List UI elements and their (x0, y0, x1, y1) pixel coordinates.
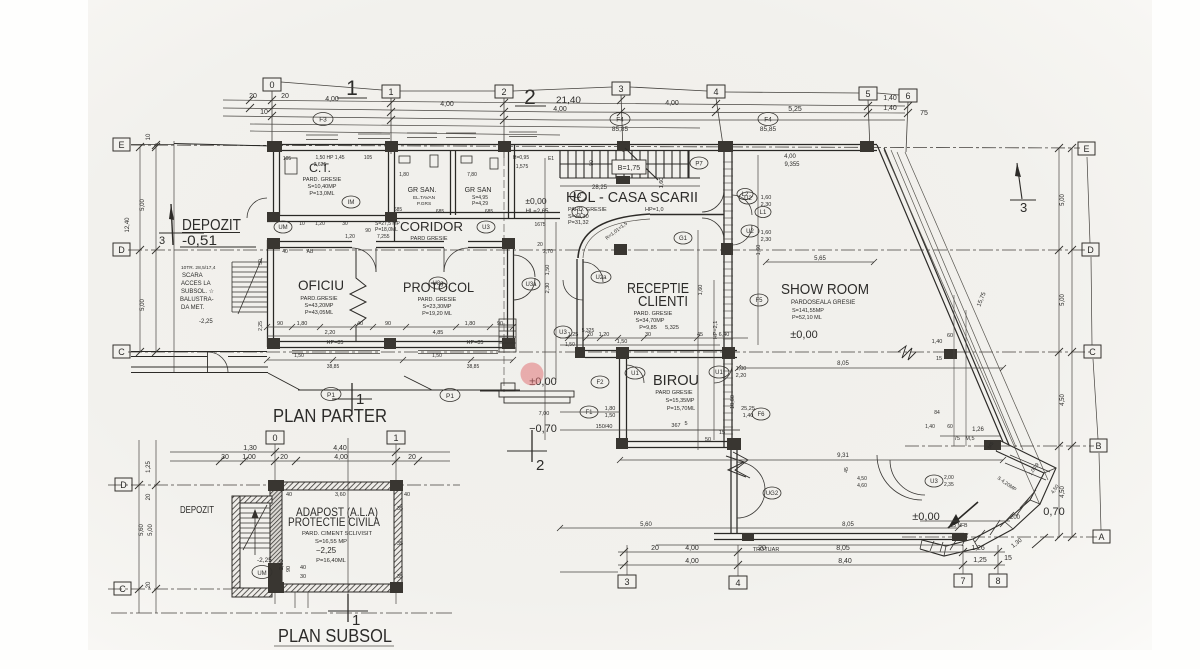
svg-text:3: 3 (618, 84, 623, 94)
svg-text:18,60: 18,60 (730, 395, 736, 409)
svg-text:21,40: 21,40 (556, 95, 581, 105)
svg-text:8,05: 8,05 (837, 361, 849, 367)
svg-text:1,60: 1,60 (761, 230, 772, 236)
svg-text:5,00: 5,00 (140, 199, 146, 211)
svg-text:8,40: 8,40 (838, 558, 852, 565)
svg-text:U3: U3 (559, 330, 567, 336)
north exterior wall (273, 144, 877, 146)
svg-text:7: 7 (960, 576, 965, 586)
corridor south wall (OFICIU/PROTOCOL top) (267, 241, 352, 243)
svg-text:5,00: 5,00 (140, 299, 146, 311)
curved stair balustrade hol (578, 214, 650, 258)
svg-text:U2a: U2a (595, 275, 607, 281)
svg-text:2,00: 2,00 (279, 559, 285, 570)
svg-text:PARD GRESIE: PARD GRESIE (655, 390, 693, 396)
svg-text:F3: F3 (319, 117, 327, 124)
hol inner line (650, 214, 724, 216)
zigzag break on C axis (898, 346, 916, 360)
subsol grid boxes 0 1 (266, 431, 405, 444)
oficiu dim texts row (277, 321, 503, 346)
svg-text:H=0,95: H=0,95 (513, 155, 529, 161)
svg-text:PROTECTIE CIVILA: PROTECTIE CIVILA (288, 515, 380, 529)
svg-text:1,80: 1,80 (605, 406, 616, 412)
subsol stair (240, 505, 270, 555)
svg-text:U1: U1 (631, 371, 639, 377)
svg-text:C: C (118, 347, 125, 357)
svg-text:3: 3 (624, 577, 629, 587)
top dim texts (249, 93, 928, 117)
svg-text:2,20: 2,20 (325, 330, 336, 336)
svg-text:M,5: M,5 (965, 436, 974, 442)
svg-text:9,31: 9,31 (837, 453, 849, 459)
svg-text:U2: U2 (744, 196, 752, 202)
svg-text:20: 20 (146, 581, 152, 588)
svg-text:30: 30 (221, 454, 229, 461)
hatched column blocks (267, 141, 1001, 541)
svg-text:1,60: 1,60 (659, 178, 665, 189)
svg-text:E: E (118, 140, 124, 150)
svg-text:2,70: 2,70 (543, 249, 553, 255)
svg-text:G1: G1 (679, 236, 688, 242)
svg-text:4,60: 4,60 (857, 483, 867, 489)
svg-text:−2,25: −2,25 (316, 546, 337, 555)
svg-text:2,30: 2,30 (761, 202, 772, 208)
svg-text:1675: 1675 (534, 222, 545, 228)
svg-text:1,30: 1,30 (243, 445, 257, 452)
svg-text:PLAN SUBSOL: PLAN SUBSOL (278, 626, 392, 646)
north windows above wall (306, 132, 537, 140)
right vertical chains (1059, 148, 1072, 537)
svg-text:P=31,32: P=31,32 (568, 220, 589, 226)
svg-text:U3: U3 (482, 225, 490, 231)
svg-text:HP=1,0: HP=1,0 (645, 207, 664, 213)
svg-text:4,50: 4,50 (1060, 394, 1066, 406)
svg-text:HP=85: HP=85 (467, 340, 484, 346)
svg-text:1: 1 (388, 87, 393, 97)
axis line C subsol (108, 588, 235, 590)
svg-text:CORIDOR: CORIDOR (400, 219, 463, 234)
left vertical chains (139, 141, 174, 613)
svg-text:4,00: 4,00 (553, 106, 567, 113)
stair hatch casa scarii (560, 148, 700, 180)
svg-text:OFICIU: OFICIU (298, 277, 344, 293)
svg-text:38,85: 38,85 (327, 364, 340, 370)
svg-text:PARD GRESIE: PARD GRESIE (410, 236, 448, 242)
ticks on oficiu rows (264, 324, 700, 341)
svg-text:B: B (1095, 441, 1101, 451)
svg-text:75: 75 (920, 110, 928, 117)
svg-text:4,00: 4,00 (685, 545, 699, 552)
svg-text:4,00: 4,00 (440, 101, 454, 108)
west wall CT (273, 145, 275, 221)
receptie-birou dim rows texts (568, 332, 730, 443)
axis line D subsol (108, 484, 460, 486)
svg-text:1,50: 1,50 (545, 265, 551, 276)
svg-text:1,80: 1,80 (399, 172, 409, 178)
svg-text:5: 5 (865, 89, 870, 99)
svg-text:P.GRS: P.GRS (417, 201, 431, 207)
svg-text:4,40: 4,40 (333, 445, 347, 452)
svg-text:5,60: 5,60 (139, 524, 145, 536)
svg-text:1,40: 1,40 (932, 339, 943, 345)
svg-text:-2,25: -2,25 (199, 319, 213, 325)
terrace steps center (480, 383, 574, 403)
svg-text:5,325: 5,325 (665, 325, 679, 331)
svg-text:1,26: 1,26 (972, 427, 984, 433)
svg-text:3: 3 (1020, 200, 1027, 215)
svg-text:20: 20 (758, 545, 766, 552)
svg-text:40: 40 (286, 492, 292, 498)
svg-text:UM: UM (278, 225, 287, 231)
dim row below oficiu/protocol (267, 359, 513, 361)
subsol texts (180, 504, 380, 564)
svg-text:EL.TAVAN: EL.TAVAN (413, 195, 436, 201)
svg-text:45: 45 (844, 467, 850, 473)
BIROU west wall (619, 358, 621, 447)
svg-text:1,80: 1,80 (297, 321, 308, 327)
svg-text:1,20: 1,20 (345, 234, 355, 240)
section flag 1 parter (351, 383, 353, 412)
svg-text:75: 75 (954, 436, 960, 442)
top dimension chains (223, 100, 905, 135)
svg-text:25,25: 25,25 (741, 406, 755, 412)
svg-text:4,50: 4,50 (857, 476, 867, 482)
svg-text:4,50: 4,50 (1060, 486, 1066, 498)
svg-text:L1: L1 (760, 210, 767, 216)
corner entrance steps polygon (920, 441, 1056, 556)
svg-text:685: 685 (436, 209, 445, 215)
svg-text:-2,25: -2,25 (257, 557, 272, 564)
svg-text:2,00: 2,00 (944, 475, 954, 481)
svg-text:15: 15 (936, 356, 942, 362)
top grid stems (272, 91, 908, 392)
svg-text:30: 30 (300, 574, 306, 580)
svg-text:50: 50 (705, 437, 711, 443)
svg-text:P=16,40ML: P=16,40ML (316, 558, 347, 564)
svg-text:20: 20 (651, 545, 659, 552)
svg-text:3,60: 3,60 (335, 492, 346, 498)
svg-text:40: 40 (357, 321, 363, 327)
handwritten big numerals 1 2 (346, 77, 536, 109)
svg-text:P=43,05ML: P=43,05ML (305, 310, 333, 316)
svg-text:HP=85: HP=85 (327, 340, 344, 346)
svg-text:S=16,55 MP: S=16,55 MP (315, 539, 347, 545)
svg-text:-0,51: -0,51 (182, 232, 217, 248)
svg-text:8,05: 8,05 (836, 545, 850, 552)
long dash-dot line below subsol (111, 612, 455, 614)
oficiu/protocol accordion divider (350, 248, 366, 341)
svg-text:BALUSTRA-: BALUSTRA- (180, 297, 214, 303)
south windows sills oficiu/protocol (292, 351, 498, 354)
svg-text:4: 4 (713, 87, 718, 97)
svg-text:P=4,29: P=4,29 (472, 201, 488, 207)
svg-text:1,40: 1,40 (925, 424, 935, 430)
subsol bottom wall (270, 584, 402, 592)
svg-text:U2: U2 (746, 229, 754, 235)
svg-text:30: 30 (342, 221, 348, 227)
GRSAN south wall (394, 212, 560, 214)
svg-text:35: 35 (397, 506, 403, 512)
F3 F4 badges top (313, 113, 778, 126)
bottom grid boxes (618, 574, 1007, 589)
svg-text:PARDOSEALA GRESIE: PARDOSEALA GRESIE (791, 300, 855, 306)
svg-text:F4: F4 (764, 117, 772, 124)
subsol top wall (270, 482, 402, 490)
section flag 1 subsol (347, 594, 349, 622)
svg-text:PLAN PARTER: PLAN PARTER (273, 406, 387, 426)
U3 corner dims (944, 475, 954, 488)
svg-text:0: 0 (269, 80, 274, 90)
svg-text:HL=2,65: HL=2,65 (526, 209, 550, 215)
svg-text:4: 4 (735, 578, 740, 588)
showroom south wall (714, 533, 964, 535)
svg-text:C: C (1089, 347, 1096, 357)
svg-text:1,50: 1,50 (432, 353, 442, 359)
line under stairs (560, 185, 700, 187)
receptie west wall piece (576, 259, 578, 352)
subsol top dim rows (170, 452, 450, 461)
svg-text:90: 90 (385, 321, 391, 327)
svg-text:2,25: 2,25 (258, 321, 264, 331)
svg-text:1,50: 1,50 (294, 353, 304, 359)
svg-text:367: 367 (671, 423, 680, 429)
svg-text:PARD.GRESIE: PARD.GRESIE (300, 296, 338, 302)
svg-text:40: 40 (282, 249, 288, 255)
svg-text:1,60: 1,60 (756, 245, 762, 256)
svg-text:S=15,35MP: S=15,35MP (666, 398, 695, 404)
svg-text:F2: F2 (596, 380, 604, 386)
svg-text:1,60: 1,60 (761, 195, 772, 201)
svg-text:15: 15 (1004, 555, 1012, 562)
svg-text:20: 20 (249, 93, 257, 100)
svg-text:2,625: 2,625 (314, 162, 327, 168)
svg-text:7,80: 7,80 (467, 172, 477, 178)
svg-text:10: 10 (260, 109, 268, 116)
svg-text:60: 60 (947, 424, 953, 430)
svg-text:SCARA: SCARA (182, 273, 203, 279)
BIROU top wall (585, 350, 737, 352)
axis line C (128, 351, 1090, 353)
svg-text:90: 90 (286, 566, 292, 572)
svg-text:S=43,20MP: S=43,20MP (305, 303, 334, 309)
svg-text:P7: P7 (695, 162, 703, 168)
svg-text:PARD. CIMENT SCLIVISIT: PARD. CIMENT SCLIVISIT (302, 531, 372, 537)
svg-text:5,65: 5,65 (814, 256, 826, 262)
svg-text:U1: U1 (715, 370, 723, 376)
axis boxes letters (113, 138, 1110, 595)
svg-text:15: 15 (719, 430, 725, 436)
end ticks on showroom dim lines (557, 259, 1006, 531)
svg-text:DEPOZIT: DEPOZIT (180, 504, 214, 516)
subsol inner face lines (240, 490, 394, 588)
corridor doors arcs (208, 190, 925, 518)
svg-text:1,25: 1,25 (973, 557, 987, 564)
svg-text:F5: F5 (755, 298, 763, 304)
PROTOCOL east wall (507, 248, 509, 341)
interior vertical chains (545, 155, 758, 450)
svg-text:20: 20 (587, 332, 593, 338)
zigzag break bottom right of birou (733, 452, 750, 478)
subsol left wall (shared, hatched) (270, 482, 282, 592)
svg-text:IM: IM (348, 200, 355, 206)
svg-text:1,80: 1,80 (465, 321, 476, 327)
subsol walls: main square hatched (232, 482, 402, 597)
central wall hol/showroom + receptie east (723, 151, 725, 448)
red watermark (521, 363, 544, 386)
svg-text:D: D (118, 245, 125, 255)
svg-text:90: 90 (497, 321, 503, 327)
svg-text:85,85: 85,85 (612, 126, 629, 133)
CT bottom wall (267, 215, 394, 217)
svg-text:2,35: 2,35 (944, 482, 954, 488)
axis line B (905, 445, 1094, 447)
line connecting grid boxes (281, 82, 899, 95)
svg-text:9,355: 9,355 (784, 162, 800, 168)
svg-text:1,40: 1,40 (883, 105, 897, 112)
svg-text:0: 0 (272, 433, 277, 443)
svg-text:P=13,0ML: P=13,0ML (309, 191, 334, 197)
svg-text:35: 35 (397, 574, 403, 580)
svg-text:D: D (1087, 245, 1094, 255)
svg-text:38,85: 38,85 (467, 364, 480, 370)
underlines of big numerals (337, 97, 367, 99)
svg-text:40: 40 (404, 492, 410, 498)
svg-text:GR SAN: GR SAN (465, 187, 492, 194)
svg-text:AB: AB (307, 249, 314, 255)
svg-text:20: 20 (146, 493, 152, 500)
svg-text:F6: F6 (757, 412, 765, 418)
svg-text:1,50: 1,50 (617, 339, 628, 345)
svg-text:85,85: 85,85 (760, 126, 777, 133)
svg-text:20: 20 (537, 242, 543, 248)
svg-text:4,00: 4,00 (334, 454, 348, 461)
GRSAN partition 2 (508, 145, 510, 218)
svg-text:20: 20 (281, 93, 289, 100)
svg-text:685: 685 (485, 209, 494, 215)
top grid boxes 0-6 (263, 78, 917, 102)
svg-text:5,60: 5,60 (640, 522, 652, 528)
annex left wall (232, 496, 240, 597)
svg-text:S=141,55MP: S=141,55MP (792, 308, 824, 314)
subsol right wall (394, 482, 402, 592)
svg-text:105: 105 (283, 156, 292, 162)
svg-text:6,40: 6,40 (719, 332, 730, 338)
svg-text:7,00: 7,00 (539, 411, 550, 417)
svg-text:6: 6 (905, 91, 910, 101)
svg-text:1,40: 1,40 (743, 413, 754, 419)
svg-text:F4: F4 (616, 117, 624, 124)
svg-text:1,50: 1,50 (605, 413, 616, 419)
svg-text:PARD. GRESIE: PARD. GRESIE (418, 297, 457, 303)
svg-text:L1: L1 (577, 210, 584, 216)
svg-text:8,05: 8,05 (842, 522, 854, 528)
svg-text:10TR. 28,5/17,4: 10TR. 28,5/17,4 (181, 265, 216, 271)
svg-text:DA MET.: DA MET. (181, 305, 205, 311)
section 3 right (1017, 163, 1022, 199)
subsol bottom center line + small dims below (295, 438, 348, 608)
svg-text:−0,70: −0,70 (529, 423, 557, 435)
svg-text:5: 5 (684, 421, 687, 427)
svg-text:20: 20 (280, 454, 288, 461)
svg-text:P1: P1 (446, 393, 454, 400)
svg-text:P1: P1 (327, 392, 335, 399)
svg-text:PARD. GRESIE: PARD. GRESIE (303, 177, 342, 183)
svg-text:±0,00: ±0,00 (525, 196, 546, 206)
svg-text:200: 200 (1010, 515, 1021, 521)
svg-text:U3a: U3a (525, 282, 537, 288)
svg-text:1: 1 (393, 433, 398, 443)
svg-text:S=23,30MP: S=23,30MP (423, 304, 452, 310)
svg-text:±0,00: ±0,00 (790, 329, 817, 341)
section flag 2 (531, 430, 533, 462)
zigzag break on west showroom wall (726, 456, 746, 477)
svg-text:L2: L2 (575, 194, 582, 200)
svg-text:20: 20 (408, 454, 416, 461)
svg-text:1,50 HP 1,45: 1,50 HP 1,45 (315, 155, 344, 161)
svg-text:A: A (1098, 532, 1104, 542)
subsol corner blocks (268, 480, 403, 593)
svg-text:1,40: 1,40 (883, 95, 897, 102)
svg-text:35: 35 (397, 541, 403, 547)
svg-text:C: C (119, 584, 126, 594)
svg-text:4,00: 4,00 (665, 100, 679, 107)
svg-text:U3: U3 (930, 479, 938, 485)
svg-text:685: 685 (394, 207, 403, 213)
svg-text:5,25: 5,25 (788, 106, 802, 113)
svg-text:150/40: 150/40 (596, 424, 613, 430)
svg-text:3: 3 (159, 235, 165, 247)
svg-text:2: 2 (501, 87, 506, 97)
svg-text:4,00: 4,00 (784, 154, 796, 160)
svg-text:1,20: 1,20 (315, 221, 325, 227)
svg-text:E: E (1083, 144, 1089, 154)
svg-text:1,26: 1,26 (971, 545, 985, 552)
svg-text:0,70: 0,70 (1043, 506, 1064, 518)
svg-text:1,575: 1,575 (516, 164, 529, 170)
svg-text:P=18,0ML: P=18,0ML (375, 227, 398, 233)
svg-text:7,255: 7,255 (377, 234, 390, 240)
svg-text:P=52,10 ML: P=52,10 ML (792, 315, 822, 321)
svg-text:60: 60 (947, 333, 953, 339)
diagonal east facade (877, 145, 1009, 445)
axis line E (108, 145, 1097, 613)
verticals near diagonal (953, 295, 955, 446)
svg-text:S=34,70MP: S=34,70MP (636, 318, 665, 324)
entry arrow (948, 502, 978, 528)
svg-text:2,30: 2,30 (545, 283, 551, 294)
svg-text:30: 30 (645, 332, 651, 338)
svg-text:S=10,40MP: S=10,40MP (308, 184, 337, 190)
OFICIU/PROTOCOL bottom wall (267, 341, 513, 343)
svg-text:90: 90 (277, 321, 283, 327)
horizontal interior dim rows (267, 262, 1010, 528)
svg-text:1,25: 1,25 (146, 461, 152, 473)
svg-text:40: 40 (300, 565, 306, 571)
annex bottom wall (232, 588, 272, 597)
annex top wall (232, 496, 272, 503)
showroom west wall lower (730, 448, 732, 533)
svg-text:GR SAN.: GR SAN. (408, 187, 437, 194)
svg-text:5,00: 5,00 (1060, 194, 1066, 206)
svg-text:5,00: 5,00 (1060, 294, 1066, 306)
axis line D (128, 249, 1086, 251)
svg-text:CLIENTI: CLIENTI (638, 293, 688, 310)
svg-text:90: 90 (365, 228, 371, 234)
subsol small dims right (286, 492, 410, 580)
svg-text:12,40: 12,40 (125, 217, 131, 233)
svg-text:105: 105 (364, 155, 373, 161)
CT east wall / corridor west (388, 145, 390, 221)
